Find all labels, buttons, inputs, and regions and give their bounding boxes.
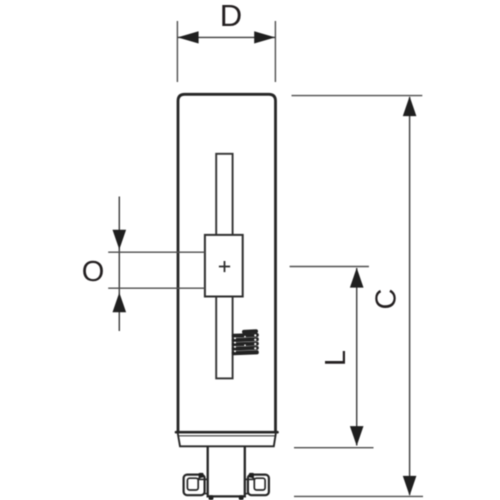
svg-text:O: O [82,256,105,288]
right contact clip [245,473,269,495]
dimension O down arrowhead [113,230,127,250]
dimension C up arrowhead [403,96,417,116]
dimension L vertical line [356,268,358,446]
dimension C top extension line [292,95,423,97]
lamp cap body [208,447,245,497]
outer bulb envelope [178,94,276,432]
dimension C bottom extension line [294,495,423,497]
dimension O lower extension line [108,287,205,289]
dimension C vertical line [409,97,411,495]
dimension D right extension line [274,21,276,82]
dimension O upper extension line [108,251,205,253]
dimension D left extension line [176,21,178,82]
dimension L top extension line [290,266,369,268]
stem rod [216,154,232,379]
svg-text:C: C [371,289,403,310]
dimension D arrow line [178,36,275,38]
dimension L bottom extension line [294,447,374,449]
dimension L down arrowhead [350,426,364,446]
getter coil [232,329,259,355]
dimension O vertical line [118,197,120,332]
dimension D left arrowhead [178,31,199,43]
svg-text:L: L [320,350,352,366]
dimension L up arrowhead [350,268,364,288]
arc tube [205,235,243,297]
svg-text:D: D [220,0,242,33]
bulb seal top line [176,431,278,434]
bulb skirt [178,434,276,447]
cap left foot [209,495,214,500]
dimension O up arrowhead [113,293,127,313]
bulb seal thin line [178,435,277,437]
cap right foot [239,495,244,500]
arc center plus mark [219,266,230,268]
dimension D right arrowhead [254,31,275,43]
dimension C down arrowhead [403,476,417,496]
left contact clip [184,473,208,495]
